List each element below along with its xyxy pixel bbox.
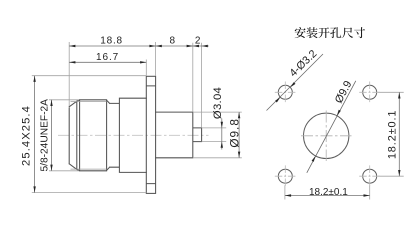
dimension 25.4 flange xyxy=(34,76,36,193)
dim line bottom 18.2 xyxy=(285,195,370,197)
centermark top-left xyxy=(275,82,296,104)
thread root lines xyxy=(71,102,107,170)
svg-text:16.7: 16.7 xyxy=(96,52,119,63)
mounting hole top-right xyxy=(363,85,377,99)
dim line dia9.9 xyxy=(307,81,356,173)
dimension pin dia 3.04 xyxy=(221,119,223,150)
svg-text:2: 2 xyxy=(195,35,201,46)
mounting hole top-left xyxy=(278,85,292,99)
center hole dia 9.9 xyxy=(304,113,349,158)
flange corner lines xyxy=(146,86,155,184)
dimension dia 9.8 xyxy=(238,112,240,158)
connector body outline xyxy=(69,98,201,172)
svg-text:Ø9.9: Ø9.9 xyxy=(333,79,355,105)
svg-text:Ø3.04: Ø3.04 xyxy=(212,87,224,119)
svg-text:18.2±0.1: 18.2±0.1 xyxy=(387,110,399,160)
mounting flange 25.4x25.4 xyxy=(146,76,155,193)
svg-text:25.4X25.4: 25.4X25.4 xyxy=(21,105,33,166)
svg-text:18.8: 18.8 xyxy=(100,35,123,46)
svg-text:8: 8 xyxy=(170,35,176,46)
dimension line 18.8 / 8 / 2 xyxy=(69,45,209,47)
svg-text:4-Ø3.2: 4-Ø3.2 xyxy=(287,48,319,80)
dim line right 18.2 xyxy=(398,92,400,176)
mounting hole bottom-right xyxy=(363,169,377,183)
centerline of connector axis xyxy=(58,134,209,136)
svg-text:5/8-24UNEF-2A: 5/8-24UNEF-2A xyxy=(40,99,51,172)
center hole centerlines xyxy=(301,111,352,162)
mounting hole bottom-left xyxy=(278,169,292,183)
svg-text:18.2±0.1: 18.2±0.1 xyxy=(309,187,348,198)
dimension 5/8 thread OD xyxy=(51,100,53,171)
dim line 4-dia3.2 xyxy=(267,54,324,111)
extension lines xyxy=(32,42,404,200)
centermark bottom-right xyxy=(359,165,380,187)
centermark top-right xyxy=(359,82,380,104)
title text 安装开孔尺寸 xyxy=(295,27,365,38)
centermark bottom-left xyxy=(275,165,296,187)
dimension line 16.7 xyxy=(69,61,146,63)
svg-text:Ø9.8: Ø9.8 xyxy=(227,118,241,148)
